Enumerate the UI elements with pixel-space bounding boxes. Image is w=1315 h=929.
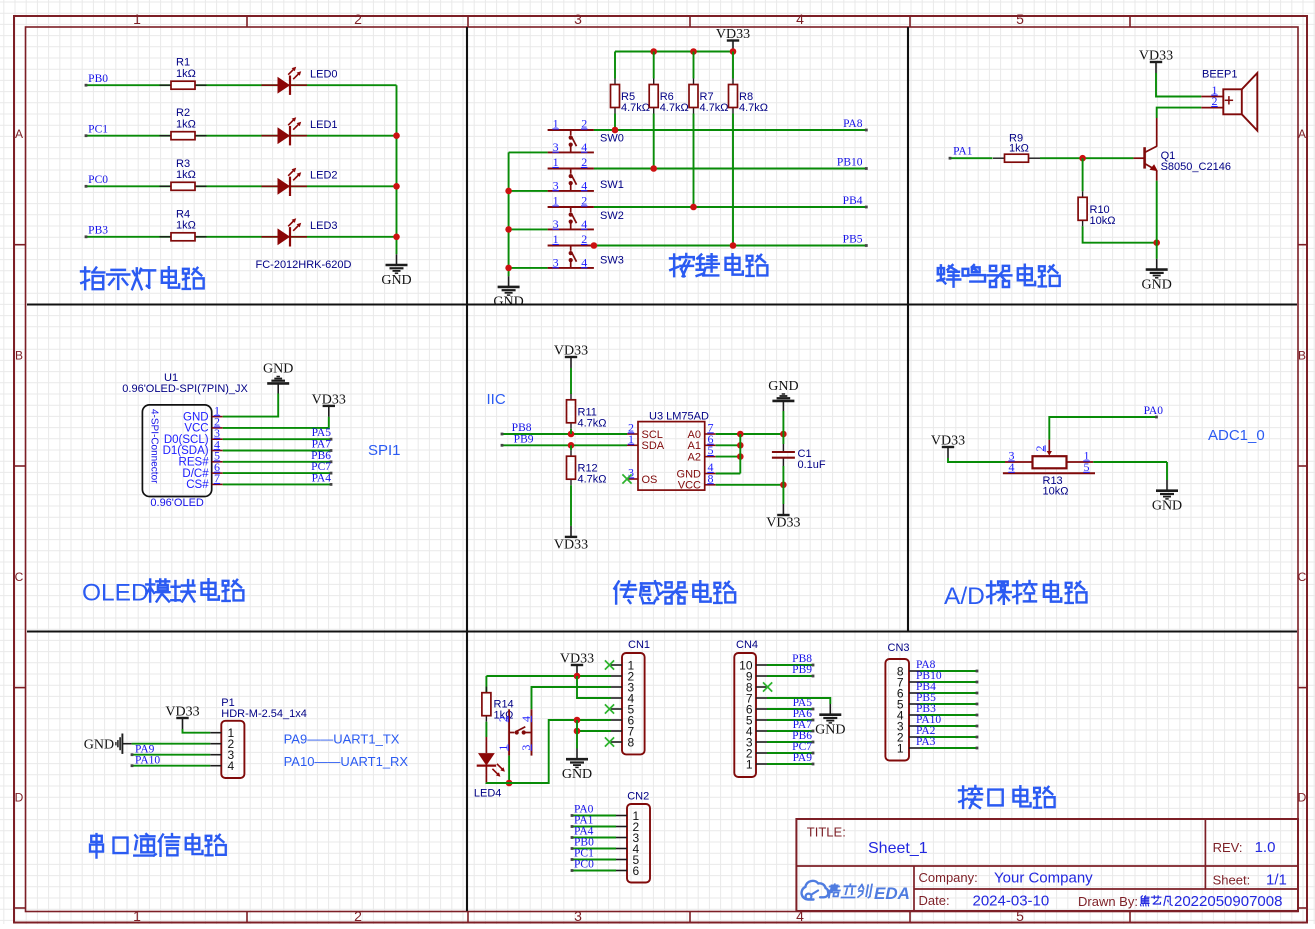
wire U1 pin6 net PC7 [223,472,333,475]
logo text 嘉立创EDA [826,884,910,903]
node PA5 net label [793,697,813,709]
node PC7 net label [792,741,812,753]
wire net PB3 row [85,235,397,238]
ground GND section7 [84,734,132,754]
node PB6 net label [311,450,331,462]
wire R5 pullup vertical [614,52,616,131]
ground GND section3 [1142,259,1172,293]
svg-text:4.7kΩ: 4.7kΩ [739,102,768,114]
svg-text:GND: GND [768,379,798,394]
node PC0 net label [574,859,594,871]
resistor R14 1k [482,687,514,722]
LED LED4 [474,737,505,800]
wire net PB3 to CN3 [920,714,978,717]
wire A0A1A2 tie vertical to pin4 [716,434,741,474]
wire SW0 pin3 stub [509,151,548,153]
svg-text:A: A [15,127,23,141]
node PB4 net label [916,681,936,693]
wire R9 to Q1 base [1040,155,1133,162]
svg-text:PA10——UART1_RX: PA10——UART1_RX [284,754,409,769]
svg-text:LED2: LED2 [310,170,338,182]
power VD33 sensor right-bottom [766,504,800,531]
wire net PB9 row [501,442,627,449]
LED LED1 [261,117,337,145]
wire C1 bottom to VCC row [782,466,784,504]
svg-text:A: A [1298,127,1306,141]
wire pin6 node to GND8 [576,720,578,749]
svg-text:GND: GND [381,273,411,288]
LED LED2 [261,168,337,196]
svg-text:1kΩ: 1kΩ [176,68,196,80]
ground GND sensor [768,379,798,411]
title block [796,819,1298,911]
wire cathode rail to GND [393,85,400,254]
section title A/D操控电路 [944,581,1086,610]
wire U1 pin3 net PA5 [223,438,333,441]
svg-text:OS: OS [642,474,658,486]
wire down to GND6 [1166,462,1168,480]
svg-text:10kΩ: 10kΩ [1043,486,1069,498]
svg-text:SDA: SDA [642,440,665,452]
wire net PB8 row [501,431,627,438]
wire net PB6 to CN4 [767,741,814,744]
svg-text:Company:: Company: [919,870,978,885]
node PB9 net label [514,433,534,445]
power VD33 section6 [931,434,965,459]
svg-text:SW2: SW2 [600,210,624,222]
svg-text:4.7kΩ: 4.7kΩ [578,474,607,486]
wire net PB4 to CN3 [920,692,978,695]
svg-text:1/1: 1/1 [1266,872,1287,889]
svg-text:1kΩ: 1kΩ [1009,142,1029,154]
node PA2 net label [916,725,936,737]
svg-text:1: 1 [133,908,141,924]
connector CN3 [885,642,920,761]
section title 按键电路 [670,254,767,276]
svg-text:0.96'OLED: 0.96'OLED [150,497,204,509]
node PB9 net label [792,664,812,676]
label SPI1 [368,442,401,459]
node PA6 net label [793,708,813,720]
node PA7 net label [312,439,332,451]
wire CN4 pin7 to GND [767,698,830,704]
wire CN1 pin2 row to R14 [486,673,611,680]
svg-text:VD33: VD33 [1139,49,1173,64]
svg-text:A0: A0 [688,429,701,441]
svg-text:4: 4 [228,759,235,773]
svg-text:1kΩ: 1kΩ [176,119,196,131]
resistor R5 4.7k [611,79,651,115]
connector CN2 [616,791,650,883]
svg-text:0.96'OLED-SPI(7PIN)_JX: 0.96'OLED-SPI(7PIN)_JX [122,383,248,395]
wire net PB5 row [591,242,868,249]
wire SW4 pin1 down [506,756,513,787]
svg-text:VD33: VD33 [554,538,588,553]
svg-text:Your Company: Your Company [994,870,1093,887]
svg-text:VCC: VCC [678,480,701,492]
section title 指示灯电路 [81,267,204,289]
svg-text:D0(SCL): D0(SCL) [164,434,209,446]
wire net PA6 to CN4 [767,719,814,722]
node PA4 net label [312,472,332,484]
svg-text:HDR-M-2.54_1x4: HDR-M-2.54_1x4 [221,708,307,720]
svg-text:3: 3 [574,908,582,924]
wire net PB8 to CN4 [767,664,814,667]
wire net PA8 to CN3 [920,670,978,673]
wire net PA8 row [594,127,868,134]
transistor Q1 S8050 [1133,118,1231,181]
svg-text:PB0: PB0 [88,73,108,85]
svg-text:PB4: PB4 [843,195,863,207]
wire GND to P1 pin2 [132,743,211,745]
wire net PA0 to CN2 [571,814,616,817]
svg-text:VD33: VD33 [766,516,800,531]
svg-text:U3 LM75AD: U3 LM75AD [649,410,709,422]
wire R8 pullup vertical [732,52,734,246]
node PA8 net label [843,118,863,130]
label PA10 UART1_RX [284,754,409,769]
power VD33 section7 [165,705,199,730]
node PB0 net label [574,837,594,849]
svg-text:C: C [15,570,24,584]
svg-text:RES#: RES# [179,457,210,469]
svg-text:B: B [1298,349,1306,363]
svg-text:SCL: SCL [642,429,663,441]
switch SW4 rotated [496,709,533,755]
resistor R7 4.7k [689,79,729,115]
svg-text:R4: R4 [176,208,190,220]
svg-text:1: 1 [897,741,904,755]
switch SW2 [548,194,624,231]
svg-text:PC1: PC1 [88,123,108,135]
node PB4 net label [843,195,863,207]
svg-text:VD33: VD33 [716,27,750,42]
svg-text:A1: A1 [688,440,701,452]
wire net PB9 to CN4 [767,675,814,678]
svg-text:EDA: EDA [874,884,910,903]
wire net PA9 to CN4 [767,763,814,766]
svg-text:PA5: PA5 [312,427,332,439]
wire PA10 to P1 pin4 [131,764,211,767]
wire VCC row [716,482,787,489]
svg-text:PC7: PC7 [311,461,331,473]
ground GND section6 [1152,480,1182,514]
capacitor C1 0.1uF [772,444,826,471]
wire R13 pin1 to GND [1093,461,1167,463]
svg-text:ADC1_0: ADC1_0 [1208,427,1265,444]
svg-text:PB9: PB9 [514,433,534,445]
svg-text:2: 2 [354,908,362,924]
svg-text:BEEP1: BEEP1 [1202,69,1237,81]
section title 蜂鸣器电路 [938,265,1060,287]
connector CN4 [734,639,767,777]
svg-text:PB6: PB6 [311,450,331,462]
svg-text:1.0: 1.0 [1255,839,1276,856]
power VD33 section8 [560,652,594,677]
ground GND CN4 [815,704,845,738]
wire PA1 to R9 [949,157,993,160]
svg-text:D: D [1298,791,1307,805]
wire net PB0 to CN2 [571,847,616,850]
wire net PC0 to CN2 [571,869,616,872]
ground GND section8 [562,749,592,783]
wire R14 top drop [485,676,487,693]
LED LED0 [261,67,337,95]
svg-text:LED4: LED4 [474,788,502,800]
svg-text:CN4: CN4 [736,639,758,651]
svg-text:FC-2012HRK-620D: FC-2012HRK-620D [256,259,352,271]
svg-text:VD33: VD33 [165,705,199,720]
svg-text:GND: GND [562,767,592,782]
node PA1 net label [574,815,594,827]
wire net PA5 to CN4 [767,708,814,711]
wire SW2 pin3 stub [509,228,548,230]
svg-text:4.7kΩ: 4.7kΩ [578,417,607,429]
wire BEEP1 pin2 to collector [1157,108,1202,118]
svg-text:D1(SDA): D1(SDA) [163,445,209,457]
wire left gnd rail [505,152,512,276]
wire VD33 top rail [615,48,736,55]
power VD33 section3 [1139,49,1173,74]
wire U1 pin4 net PA7 [223,449,333,452]
potentiometer R13 10k [1003,440,1095,498]
svg-text:VD33: VD33 [312,392,346,407]
node PB3 net label [916,703,936,715]
wire SW1 pin3 stub [509,190,548,192]
node PA10 net label [135,754,160,766]
label PA9 UART1_TX [284,732,400,747]
wire net PB0 row [85,84,397,87]
svg-text:D/C#: D/C# [182,468,209,480]
svg-text:PB3: PB3 [88,225,108,237]
svg-text:VCC: VCC [184,423,208,435]
svg-text:Date:: Date: [919,893,950,908]
svg-text:TITLE:: TITLE: [807,825,846,840]
svg-text:4.7kΩ: 4.7kΩ [700,102,729,114]
wire VD33 to R11 [570,368,572,394]
wire SW3 pin3 stub [509,267,548,269]
node PA4 net label [574,826,594,838]
wire net PC7 to CN4 [767,752,814,755]
label ADC1_0 [1208,427,1265,444]
svg-text:PA8: PA8 [843,118,863,130]
switch SW3 [548,232,624,269]
node PA9 net label [793,752,813,764]
svg-text:A/D: A/D [944,583,985,610]
wire pin2 node down to pin4 [577,676,611,698]
node PA9 net label [135,743,155,755]
wire R11 bottom / R12 top [570,429,572,450]
svg-text:SW1: SW1 [600,179,624,191]
svg-text:GND: GND [84,738,114,753]
wire emitter to GND [1156,181,1158,259]
svg-text:PA3: PA3 [916,736,936,748]
node PB8 net label [792,653,812,665]
svg-text:Sheet:: Sheet: [1213,873,1251,888]
connector P1 HDR-M-2.54_1x4 [210,697,307,778]
wire net PA1 to CN2 [571,825,616,828]
wire VD33 to P1 pin1 [183,729,211,733]
switch SW1 [548,155,624,192]
svg-text:LED3: LED3 [310,220,338,232]
resistor R6 4.7k [649,79,689,115]
connector CN1 [611,639,650,754]
wire CN1 pin7 row [574,728,611,735]
wire U1 pin2 to VD33 [223,417,329,428]
logo JLC EDA cloud [802,881,829,900]
svg-text:PA9: PA9 [793,752,813,764]
section title 接口电路 [959,786,1055,808]
svg-text:GND: GND [183,411,209,423]
svg-text:1: 1 [133,11,141,27]
svg-text:GND: GND [815,723,845,738]
node PB10 net label [837,157,863,169]
wire net PA4 to CN2 [571,836,616,839]
node PC0 net label [88,174,108,186]
wire net PC1 row [85,134,397,137]
svg-text:A2: A2 [688,451,701,463]
svg-text:GND: GND [1152,499,1182,514]
svg-text:PB10: PB10 [837,157,863,169]
power VD33 section2 [716,27,750,52]
svg-text:1kΩ: 1kΩ [176,220,196,232]
node PA3 net label [916,736,936,748]
node PB5 net label [916,692,936,704]
svg-text:0.1uF: 0.1uF [798,459,826,471]
node PB3 net label [88,225,108,237]
node PA7 net label [793,719,813,731]
resistor R11 4.7k [567,394,607,430]
node PA8 net label [916,659,936,671]
resistor R1 1k [160,57,207,90]
wire A0 row to GND/C1 [716,431,787,438]
svg-text:PA7: PA7 [312,439,332,451]
svg-text:GND: GND [1142,277,1172,292]
svg-text:GND: GND [677,468,702,480]
wire LED4 bottom run [486,717,611,783]
node PA5 net label [312,427,332,439]
wire A1 stub [716,442,744,449]
svg-text:4.7kΩ: 4.7kΩ [621,102,650,114]
svg-text:2022050907008: 2022050907008 [1174,893,1282,910]
wire R14 bottom to LED4 [485,722,487,737]
svg-text:2024-03-10: 2024-03-10 [973,893,1050,910]
wire net PA3 to CN3 [920,747,978,750]
node PB8 net label [512,422,532,434]
wire R10 bottom to emitter node [1083,226,1160,246]
wire A2 stub [716,453,744,460]
svg-text:PA0: PA0 [1144,405,1164,417]
svg-text:4: 4 [796,11,804,27]
wire CN1 pin3 to SW4 pin4 [532,687,612,709]
wire net PA10 to CN3 [920,725,978,728]
svg-text:Sheet_1: Sheet_1 [868,840,928,857]
svg-text:PC0: PC0 [574,859,594,871]
label FC-2012HRK-620D [256,259,352,271]
power VD33 sensor bottom [554,526,588,553]
svg-text:LED1: LED1 [310,119,338,131]
wire VD33 to BEEP1 pin1 [1156,73,1201,97]
svg-text:PB8: PB8 [512,422,532,434]
svg-text:1kΩ: 1kΩ [176,169,196,181]
section title OLED模块电路 [82,579,243,606]
node PB5 net label [843,234,863,246]
svg-text:3: 3 [574,11,582,27]
power VD33 sensor top [554,344,588,369]
svg-text:D: D [15,791,24,805]
svg-text:4-SPI-Connector: 4-SPI-Connector [149,409,160,484]
wire U1 pin7 net PA4 [223,483,333,486]
svg-text:VD33: VD33 [931,434,965,449]
svg-text:OLED: OLED [82,580,149,607]
ground GND section4 [263,362,293,394]
svg-text:PA4: PA4 [312,472,332,484]
svg-text:SW0: SW0 [600,133,624,145]
resistor R8 4.7k [729,79,769,115]
wire net PC0 row [85,185,397,188]
IC U3 LM75AD [627,410,716,491]
svg-text:S8050_C2146: S8050_C2146 [1161,161,1231,173]
resistor R3 1k [160,158,207,191]
section title 传感器电路 [614,581,735,603]
svg-text:PB9: PB9 [792,664,812,676]
node PC1 net label [88,123,108,135]
resistor R10 10k [1078,191,1115,227]
ground GND section1 [381,254,411,287]
svg-text:CN1: CN1 [628,639,650,651]
node PB0 net label [88,73,108,85]
buzzer BEEP1 [1201,69,1257,131]
wire net PB5 to CN3 [920,703,978,706]
svg-text:REV:: REV: [1213,840,1243,855]
svg-text:B: B [15,349,23,363]
switch SW0 [548,117,624,154]
svg-text:10kΩ: 10kΩ [1090,215,1116,227]
no-connect X CN4 pin8 [763,682,772,691]
no-connect X CN1 pins 1,5,8 [605,660,614,746]
wire net PB10 row [594,165,868,172]
wire GND to C1 node [782,411,784,444]
svg-text:CN3: CN3 [888,642,910,654]
resistor R2 1k [160,107,207,140]
power VD33 section4 [312,392,346,417]
svg-text:4.7kΩ: 4.7kΩ [660,102,689,114]
wire R7 pullup vertical [693,52,695,208]
svg-text:R1: R1 [176,57,190,69]
wire PA9 to P1 pin3 [131,753,211,756]
label IIC [487,391,506,408]
svg-text:R2: R2 [176,107,190,119]
svg-text:R3: R3 [176,158,190,170]
wire base node to R10 [1082,158,1084,191]
svg-text:PA9——UART1_TX: PA9——UART1_TX [284,732,400,747]
wire R12 bottom to VD33 [570,485,572,526]
node PC1 net label [574,848,594,860]
svg-text:Drawn By:: Drawn By: [1078,894,1138,909]
resistor R4 1k [160,208,207,241]
node PC7 net label [311,461,331,473]
svg-text:8: 8 [628,735,635,749]
wire U1 pin5 net PB6 [223,460,333,463]
svg-text:PA1: PA1 [953,146,973,158]
resistor R9 1k [993,133,1040,163]
svg-text:VD33: VD33 [560,652,594,667]
wire net PB10 to CN3 [920,681,978,684]
no-connect X on U3 pin3 OS [622,474,631,483]
svg-text:CN2: CN2 [627,791,649,803]
svg-text:SPI1: SPI1 [368,442,401,459]
svg-text:GND: GND [493,295,523,310]
